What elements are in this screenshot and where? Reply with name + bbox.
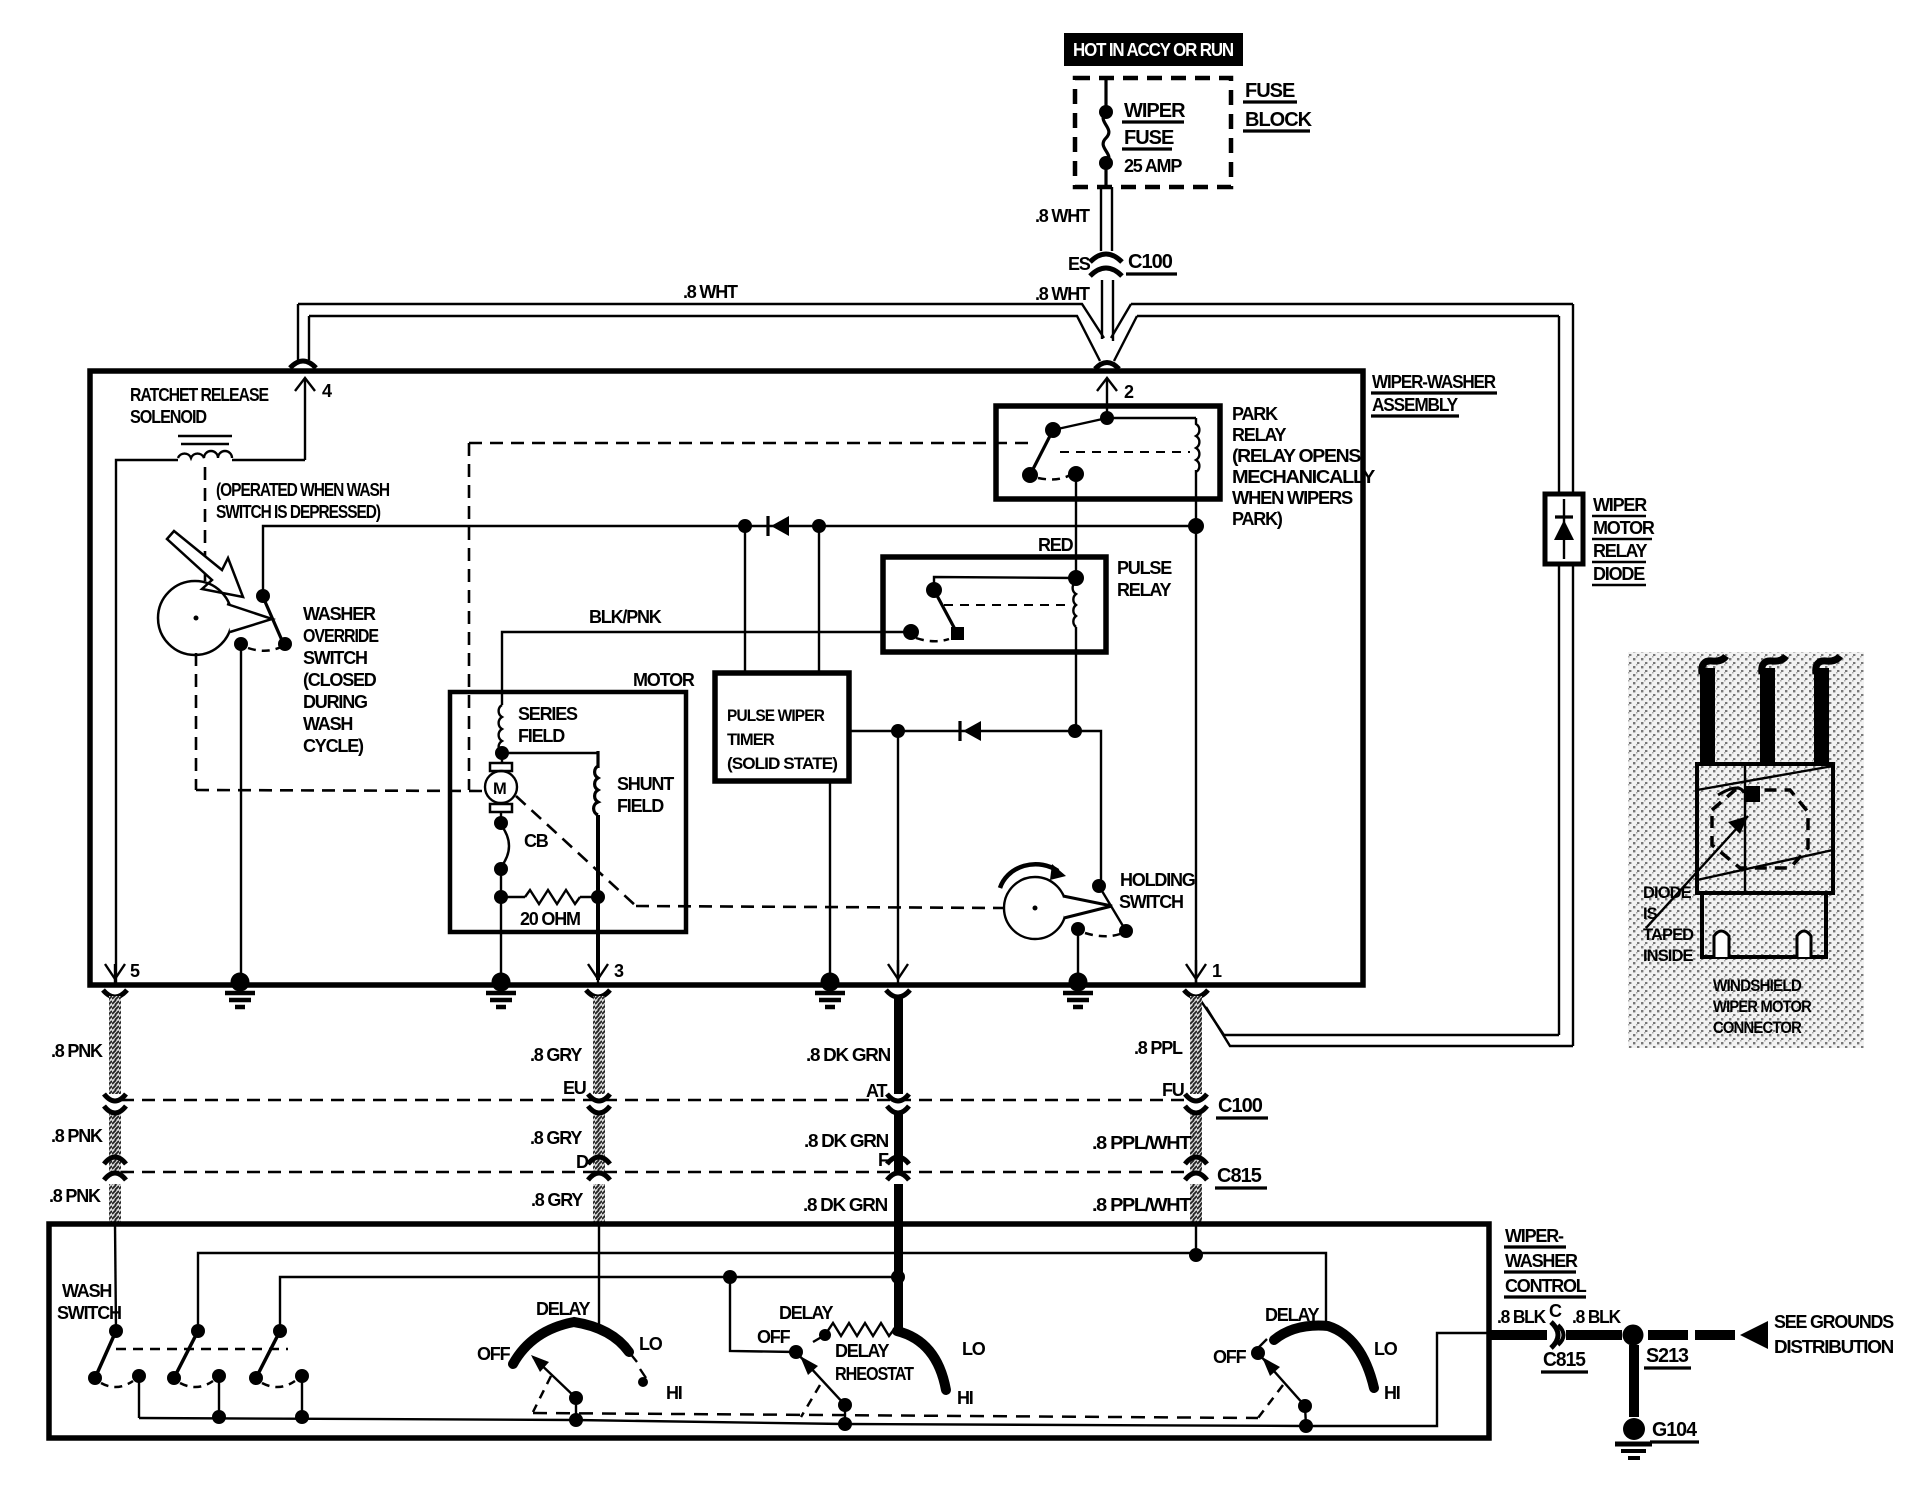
dashed link park relay arm (vertical + horizontal) (469, 443, 1035, 790)
svg-text:WASH: WASH (62, 1281, 111, 1301)
svg-text:LO: LO (1374, 1339, 1398, 1359)
wire BLK/PNK motor to pulse relay (502, 632, 911, 705)
pulse relay label (1117, 558, 1172, 600)
wire .8 GRY (hatched) (593, 996, 605, 1224)
svg-text:CONTROL: CONTROL (1505, 1276, 1587, 1296)
ratchet release solenoid label (130, 385, 269, 427)
svg-text:SEE GROUNDS: SEE GROUNDS (1774, 1312, 1894, 1332)
svg-text:SERIES: SERIES (518, 704, 578, 724)
wire .8 BLK exit (1487, 1301, 1621, 1340)
svg-text:ES: ES (1068, 254, 1091, 274)
svg-text:FUSE: FUSE (1124, 127, 1174, 149)
svg-text:WASHER: WASHER (303, 604, 376, 624)
diode D1 on washer wire (768, 516, 789, 536)
svg-text:M: M (493, 780, 506, 798)
washer override switch S1 contacts (234, 589, 292, 651)
washer override switch arrow (167, 531, 243, 597)
wire S213 to G104 (1629, 1345, 1639, 1417)
svg-text:SWITCH: SWITCH (303, 648, 367, 668)
ratchet release solenoid L1 (178, 436, 232, 458)
svg-text:HI: HI (666, 1383, 682, 1403)
svg-text:DELAY: DELAY (779, 1303, 834, 1323)
assembly label (1371, 372, 1497, 416)
svg-text:PARK): PARK) (1232, 509, 1283, 529)
park relay box (996, 406, 1220, 499)
svg-text:RELAY: RELAY (1232, 425, 1287, 445)
svg-text:DISTRIBUTION: DISTRIBUTION (1774, 1337, 1893, 1357)
wire solenoid left to pin5 drop (232, 459, 305, 461)
wire ppl into box (1195, 1224, 1197, 1255)
pulse relay box (883, 557, 1106, 652)
dashed link motor to holding switch (516, 796, 1004, 908)
connector cap pin3 (586, 990, 610, 997)
node shunt-resistor junction (591, 890, 605, 904)
svg-text:MOTOR: MOTOR (633, 670, 695, 690)
svg-text:DIODE: DIODE (1593, 564, 1645, 584)
connector pair DKGRN at C815 (887, 1157, 909, 1180)
node washer wire to park coil wire (1188, 518, 1204, 534)
fuse block dashed box (1075, 78, 1231, 187)
delay switch 2 (rheostat) (757, 1303, 986, 1408)
wire .8 DK GRN (solid) (894, 996, 903, 1224)
svg-text:WHEN WIPERS: WHEN WIPERS (1232, 488, 1353, 508)
svg-text:WASH: WASH (303, 714, 352, 734)
wire junction B to timer (818, 526, 820, 673)
svg-text:AT: AT (866, 1081, 887, 1101)
svg-text:4: 4 (322, 381, 332, 401)
park relay label (1232, 404, 1375, 529)
svg-text:.8 BLK: .8 BLK (1572, 1307, 1621, 1327)
connector cap pin1 (1184, 990, 1208, 997)
wire labels row2 (51, 1126, 1191, 1172)
svg-text:20 OHM: 20 OHM (520, 909, 580, 929)
pulse wiper timer box (715, 673, 849, 781)
svg-text:1: 1 (1212, 961, 1222, 981)
svg-text:C815: C815 (1217, 1165, 1262, 1187)
pin 3 (588, 960, 624, 983)
connector pair PNK at C815 (104, 1157, 126, 1180)
wire right branch down to diode (double line) (1559, 304, 1573, 1046)
wire junction A to timer (744, 526, 746, 673)
svg-text:FU: FU (1162, 1080, 1184, 1100)
wire diode to pin1 (double line lower right) (1199, 998, 1573, 1046)
wire C100 to junction V (double line) (1102, 280, 1113, 341)
pin 1 (1186, 960, 1222, 983)
svg-text:F: F (878, 1150, 889, 1170)
connector illustration labels (1643, 884, 1694, 965)
svg-text:.8 GRY: .8 GRY (530, 1128, 582, 1148)
svg-text:OFF: OFF (757, 1327, 791, 1347)
wire park relay coil down to pin 1 (1195, 470, 1197, 983)
node washB-dkgrn junction (891, 1270, 905, 1284)
svg-text:FIELD: FIELD (617, 796, 664, 816)
circuit breaker CB (494, 816, 549, 876)
svg-text:.8 PNK: .8 PNK (49, 1186, 101, 1206)
node washB-delay2 junction (723, 1270, 737, 1284)
svg-text:OFF: OFF (1213, 1347, 1247, 1367)
wash switch S3c (249, 1324, 309, 1424)
svg-text:C815: C815 (1543, 1349, 1586, 1371)
svg-text:.8 PNK: .8 PNK (51, 1126, 103, 1146)
washer override switch label (303, 604, 379, 756)
svg-text:LO: LO (962, 1339, 986, 1359)
pulse relay internals (903, 570, 1084, 641)
pin 5 (105, 961, 140, 983)
svg-text:(OPERATED WHEN WASH: (OPERATED WHEN WASH (216, 480, 389, 500)
svg-text:RHEOSTAT: RHEOSTAT (835, 1364, 914, 1384)
wire dkgrn into box (894, 1224, 903, 1332)
wire .8 WHT fuse to C100 (double line) (1101, 187, 1112, 251)
dashed bus link (533, 1413, 1258, 1418)
node timer-DKGRN junction (891, 724, 905, 738)
svg-text:.8 DK GRN: .8 DK GRN (803, 1195, 887, 1215)
svg-text:TIMER: TIMER (727, 731, 775, 749)
wire resistor junction to pin 3 (596, 897, 600, 980)
wash switch S3b (167, 1324, 226, 1424)
svg-text:.8 PPL/WHT: .8 PPL/WHT (1092, 1195, 1191, 1215)
svg-text:.8 GRY: .8 GRY (531, 1190, 583, 1210)
svg-text:FIELD: FIELD (518, 726, 565, 746)
delay switch 3 (1213, 1305, 1400, 1403)
node CB to resistor (494, 890, 508, 904)
svg-text:(SOLID STATE): (SOLID STATE) (727, 755, 837, 773)
wire left branch down to pin 4 (double line) (290, 304, 316, 368)
resistor 20 OHM (501, 890, 598, 929)
delay switch 1 (477, 1299, 682, 1403)
svg-text:CYCLE): CYCLE) (303, 736, 364, 756)
svg-text:LO: LO (639, 1334, 663, 1354)
node washA-ppl junction (1189, 1248, 1203, 1262)
svg-text:C: C (1549, 1301, 1562, 1321)
svg-text:.8 PPL/WHT: .8 PPL/WHT (1092, 1133, 1191, 1153)
wire armature ground leg (500, 897, 502, 983)
ground G104 (1615, 1418, 1699, 1458)
dashed link solenoid to washer switch (204, 467, 207, 581)
svg-text:TAPED: TAPED (1643, 926, 1694, 944)
diode D2 on timer wire (960, 721, 981, 741)
ground at x500 (486, 973, 516, 1008)
wire washer switch lower contact to ground (240, 644, 242, 983)
wire .8 PNK (hatched) (109, 996, 121, 1224)
dashed link inside park relay (1060, 451, 1190, 453)
wiper motor relay diode label (1592, 495, 1655, 585)
wash switch S3a (88, 1324, 146, 1418)
svg-text:WIPER: WIPER (1593, 495, 1647, 515)
dashed link wash switches (116, 1348, 288, 1351)
wiper fuse F1 (1099, 78, 1113, 187)
pin 2 (1097, 378, 1134, 418)
svg-text:.8 DK GRN: .8 DK GRN (806, 1045, 890, 1065)
svg-text:PULSE: PULSE (1117, 558, 1172, 578)
svg-text:OFF: OFF (477, 1344, 511, 1364)
delay switch 3 wiper (1251, 1339, 1313, 1433)
svg-text:DELAY: DELAY (835, 1341, 890, 1361)
pin 4 (295, 378, 332, 460)
node washer wire junction B (812, 519, 826, 533)
svg-text:.8 WHT: .8 WHT (1035, 284, 1090, 304)
connector C815 inline (1541, 1322, 1622, 1372)
svg-text:HOT IN ACCY OR RUN: HOT IN ACCY OR RUN (1073, 40, 1233, 60)
svg-text:DURING: DURING (303, 692, 367, 712)
svg-text:WINDSHIELD: WINDSHIELD (1713, 977, 1802, 995)
svg-text:BLOCK: BLOCK (1245, 109, 1313, 131)
svg-text:CONNECTOR: CONNECTOR (1713, 1019, 1802, 1037)
svg-text:SOLENOID: SOLENOID (130, 407, 207, 427)
svg-text:(RELAY OPENS: (RELAY OPENS (1232, 446, 1361, 466)
svg-text:S213: S213 (1646, 1345, 1689, 1367)
wire .8 PPL (hatched) (1190, 996, 1202, 1224)
svg-text:OVERRIDE: OVERRIDE (303, 626, 379, 646)
node series field to armature (495, 746, 509, 760)
connector cap pin5 (103, 990, 127, 997)
fuse block label (1243, 80, 1313, 131)
delay switch 1 wiper (531, 1355, 583, 1427)
svg-text:(CLOSED: (CLOSED (303, 670, 377, 690)
svg-text:DIODE: DIODE (1643, 884, 1692, 902)
park relay coil (1196, 418, 1199, 472)
connector C815 dashed line (121, 1171, 1185, 1174)
connector pair DKGRN at C100 (887, 1094, 909, 1113)
svg-text:.8 BLK: .8 BLK (1497, 1307, 1546, 1327)
series field coil (499, 705, 502, 753)
wire washA long horizontal (198, 1253, 1326, 1331)
ground at x830 (815, 973, 845, 1008)
wire delay2 wiper feed (730, 1277, 796, 1352)
pin dk-grn (888, 960, 908, 983)
motor armature M (485, 753, 517, 822)
svg-text:SWITCH: SWITCH (57, 1303, 121, 1323)
svg-text:WIPER-WASHER: WIPER-WASHER (1372, 372, 1496, 392)
svg-text:3: 3 (614, 961, 624, 981)
motor box (450, 692, 686, 932)
svg-text:PULSE WIPER: PULSE WIPER (727, 707, 825, 725)
wire timer right to holding switch (849, 731, 1101, 886)
svg-text:.8 DK GRN: .8 DK GRN (804, 1131, 888, 1151)
svg-text:EU: EU (563, 1078, 586, 1098)
hot-in-accy label box (1064, 33, 1243, 66)
ground at x240 (225, 973, 255, 1008)
wire DK GRN junction down to pin (897, 731, 899, 980)
svg-text:FUSE: FUSE (1245, 80, 1295, 102)
svg-text:D: D (576, 1152, 589, 1172)
connector C100 (ES) (1090, 254, 1122, 276)
wire labels row1 (51, 1038, 1184, 1101)
connector pair PNK at C100 (104, 1094, 126, 1113)
svg-text:.8 WHT: .8 WHT (683, 282, 738, 302)
wiper-washer control box (49, 1224, 1489, 1438)
wire gry into box (598, 1224, 600, 1328)
svg-text:25 AMP: 25 AMP (1124, 156, 1182, 176)
dashed link inside pulse relay (944, 604, 1066, 606)
splice S213 (1623, 1325, 1692, 1369)
connector pair PPL at C100 (1185, 1094, 1207, 1113)
wire labels row3 (49, 1186, 1191, 1215)
pulse relay coil (1073, 582, 1076, 627)
svg-text:SWITCH: SWITCH (1119, 892, 1183, 912)
connector pair PPL at C815 (1185, 1157, 1207, 1180)
wiper motor relay diode CR1 (1545, 494, 1583, 564)
svg-text:.8 WHT: .8 WHT (1035, 206, 1090, 226)
svg-text:HOLDING: HOLDING (1120, 870, 1195, 890)
wire washB horizontal (280, 1277, 898, 1331)
svg-text:RELAY: RELAY (1117, 580, 1172, 600)
svg-text:PARK: PARK (1232, 404, 1278, 424)
wash switch label (57, 1281, 121, 1323)
holding switch S2 contacts (1071, 879, 1133, 938)
note operated-when-wash (216, 480, 389, 522)
park relay internals (1022, 411, 1196, 483)
svg-text:RED: RED (1038, 535, 1074, 555)
svg-text:.8 GRY: .8 GRY (530, 1045, 582, 1065)
svg-text:WIPER-: WIPER- (1505, 1226, 1564, 1246)
svg-text:RELAY: RELAY (1593, 541, 1648, 561)
svg-text:C100: C100 (1218, 1095, 1263, 1117)
svg-text:RATCHET RELEASE: RATCHET RELEASE (130, 385, 269, 405)
svg-text:INSIDE: INSIDE (1643, 947, 1694, 965)
svg-text:5: 5 (130, 961, 140, 981)
svg-text:MOTOR: MOTOR (1593, 518, 1655, 538)
connector pair GRY at C815 (588, 1157, 610, 1180)
node washer wire junction A (738, 519, 752, 533)
wire to grounds distribution (thick dashed) (1648, 1321, 1768, 1349)
svg-text:C100: C100 (1128, 251, 1173, 273)
svg-text:IS: IS (1643, 905, 1658, 923)
svg-text:SHUNT: SHUNT (617, 774, 674, 794)
shunt field coil (502, 751, 598, 897)
svg-text:.8 PPL: .8 PPL (1134, 1038, 1183, 1058)
wire washer switch to park relay (long horizontal) (263, 526, 1196, 596)
holding switch cam (1000, 864, 1112, 939)
connector pair GRY at C100 (588, 1094, 610, 1113)
control box label (1504, 1226, 1587, 1297)
svg-text:MECHANICALLY: MECHANICALLY (1232, 467, 1375, 487)
svg-text:BLK/PNK: BLK/PNK (589, 607, 662, 627)
svg-text:.8 PNK: .8 PNK (51, 1041, 103, 1061)
svg-text:WASHER: WASHER (1505, 1251, 1578, 1271)
wiper fuse labels (1122, 100, 1186, 176)
windshield wiper motor connector illustration (1628, 652, 1864, 1048)
svg-text:2: 2 (1124, 382, 1134, 402)
bus wire bottom (139, 1333, 1489, 1426)
wire RED park relay to pulse relay coil (1075, 474, 1077, 578)
connector cap dk-grn (886, 990, 910, 997)
svg-text:WIPER MOTOR: WIPER MOTOR (1713, 998, 1812, 1016)
svg-text:DELAY: DELAY (536, 1299, 591, 1319)
wire timer bottom to ground (829, 781, 831, 983)
svg-text:HI: HI (957, 1388, 973, 1408)
svg-text:G104: G104 (1652, 1419, 1698, 1441)
svg-text:ASSEMBLY: ASSEMBLY (1372, 395, 1458, 415)
wire pnk into box (115, 1224, 116, 1331)
dashed link washer switch to motor (196, 653, 482, 791)
svg-text:CB: CB (524, 831, 549, 851)
svg-text:WIPER: WIPER (1124, 100, 1186, 122)
ground at x1078 (1063, 973, 1093, 1008)
svg-text:SWITCH IS DEPRESSED): SWITCH IS DEPRESSED) (216, 502, 381, 522)
holding switch label (1119, 870, 1195, 912)
node pin2 cap (1095, 363, 1119, 370)
connector C100 dashed line (121, 1099, 1185, 1102)
delay switch 2 wiper (789, 1345, 852, 1431)
wire pulse relay coil down to timer wire (1075, 627, 1077, 731)
node pulse relay coil junction (1068, 724, 1082, 738)
wiper-washer assembly box (90, 371, 1363, 985)
washer override switch cam (158, 581, 272, 655)
svg-text:HI: HI (1384, 1383, 1400, 1403)
wire .8 WHT main horizontal run (double line) (298, 304, 1573, 361)
wire holding switch to ground (1077, 929, 1079, 983)
